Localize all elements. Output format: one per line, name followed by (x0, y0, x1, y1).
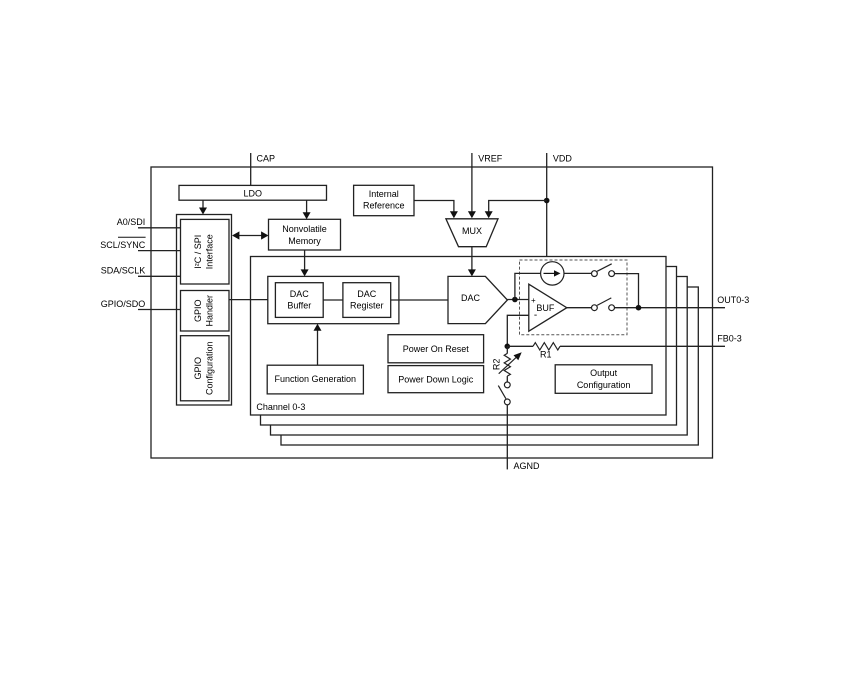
svg-text:Internal: Internal (369, 189, 399, 199)
box Nonvolatile Memory (269, 219, 341, 250)
svg-text:A0/SDI: A0/SDI (117, 217, 146, 227)
svg-text:DAC: DAC (290, 289, 310, 299)
svg-text:MUX: MUX (462, 226, 482, 236)
box Function Generation (267, 365, 363, 394)
box DAC Buffer (275, 283, 323, 318)
svg-text:Power On Reset: Power On Reset (403, 344, 470, 354)
wire CAP pin (250, 153, 252, 185)
channel box 2 (271, 277, 688, 436)
box DAC Register (343, 283, 391, 318)
switch S2 (592, 305, 598, 311)
svg-text:DAC: DAC (357, 289, 377, 299)
svg-text:CAP: CAP (257, 154, 276, 164)
svg-text:FB0-3: FB0-3 (717, 334, 742, 344)
junction feedback node (505, 344, 511, 350)
wire MUX to DAC (471, 247, 473, 270)
junction output node (636, 305, 642, 311)
svg-text:R1: R1 (540, 350, 552, 360)
svg-text:Memory: Memory (288, 236, 321, 246)
svg-text:GPIO: GPIO (193, 357, 203, 380)
wire VREF arrowhead (468, 211, 476, 218)
svg-text:R2: R2 (491, 359, 501, 371)
opamp BUF (529, 284, 567, 331)
svg-text:-: - (534, 310, 537, 321)
box I2C/SPI Interface (181, 219, 230, 284)
wire DAC output node (507, 299, 528, 301)
box Output Configuration (555, 365, 652, 394)
svg-text:VREF: VREF (478, 154, 503, 164)
box Internal Reference (354, 185, 414, 215)
svg-text:AGND: AGND (514, 461, 541, 471)
svg-text:SCL/SYNC: SCL/SYNC (100, 240, 146, 250)
channel box 1 (261, 267, 677, 426)
wire VREF pin (471, 153, 473, 212)
wire to FB0-3 (560, 345, 725, 347)
wire double arrow interface-NVM (238, 235, 262, 237)
wire current source to switch (564, 272, 592, 274)
svg-text:Interface: Interface (205, 234, 215, 269)
wire register-DAC (391, 299, 448, 301)
svg-text:BUF: BUF (536, 303, 555, 313)
channel box 0 (front) (251, 257, 667, 416)
wire node up to current source (515, 273, 541, 299)
wire A0/SDI pin (138, 227, 181, 229)
wire VDD to MUX (489, 201, 547, 212)
svg-text:Nonvolatile: Nonvolatile (282, 224, 327, 234)
mux MUX (446, 219, 498, 247)
LDO box (179, 185, 327, 200)
wire switch to output node (615, 274, 639, 308)
current source (541, 262, 564, 285)
wire to OUT0-3 (615, 307, 726, 309)
svg-text:VDD: VDD (553, 154, 573, 164)
box GPIO Handler (181, 291, 230, 332)
SYNC overline (118, 236, 146, 238)
svg-text:GPIO/SDO: GPIO/SDO (101, 299, 146, 309)
wire FuncGen to DAC container (317, 330, 319, 365)
svg-text:Buffer: Buffer (287, 301, 311, 311)
wire BUF inverting input feedback (507, 315, 529, 346)
wire SCL/SYNC pin (138, 250, 181, 252)
box Power On Reset (388, 335, 484, 363)
wire LDO to interface (202, 200, 204, 208)
wire Internal Reference to MUX (414, 201, 454, 212)
svg-text:I²C / SPI: I²C / SPI (193, 235, 203, 269)
box Power Down Logic (388, 366, 484, 393)
svg-text:Output: Output (590, 368, 618, 378)
resistor R1 (507, 345, 533, 347)
dac DAC pentagon (448, 276, 507, 323)
wire AGND (506, 405, 508, 470)
svg-text:SDA/SCLK: SDA/SCLK (101, 266, 146, 276)
svg-text:GPIO: GPIO (193, 299, 203, 322)
resistor R2 (506, 346, 508, 353)
dashed buffer block (520, 260, 628, 335)
outer border (151, 167, 713, 458)
box DAC sub-container (268, 276, 399, 323)
svg-text:Power Down Logic: Power Down Logic (398, 374, 474, 384)
svg-text:Configuration: Configuration (205, 341, 215, 395)
R2 adjustment arrow (499, 358, 516, 374)
wire BUF output (567, 307, 592, 309)
svg-text:Register: Register (350, 301, 384, 311)
svg-text:Reference: Reference (363, 201, 405, 211)
box interface container (177, 215, 232, 406)
wire GPIO Handler to DAC buffer (229, 299, 275, 301)
wire buffer-register (323, 299, 343, 301)
wire SDA/SCLK pin (138, 275, 181, 277)
switch S3 (504, 382, 510, 388)
wire VDD pin (546, 153, 548, 257)
switch S1 (592, 271, 598, 277)
svg-text:Channel 0-3: Channel 0-3 (256, 402, 305, 412)
junction VDD branch (544, 198, 550, 204)
svg-text:DAC: DAC (461, 293, 481, 303)
channel box 3 (back) (281, 287, 698, 445)
svg-text:Handler: Handler (205, 295, 215, 327)
svg-text:OUT0-3: OUT0-3 (717, 295, 749, 305)
wire LDO to NVM (306, 200, 308, 213)
svg-text:+: + (531, 296, 536, 305)
box GPIO Configuration (181, 336, 230, 401)
svg-text:Configuration: Configuration (577, 380, 631, 390)
svg-text:Function Generation: Function Generation (275, 374, 357, 384)
svg-text:LDO: LDO (243, 189, 262, 199)
wire NVM to DAC block (304, 250, 306, 270)
wire GPIO/SDO pin (138, 309, 181, 311)
